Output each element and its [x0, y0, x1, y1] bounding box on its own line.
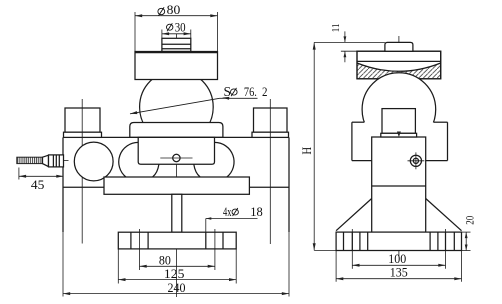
- svg-text:125: 125: [164, 267, 185, 281]
- svg-text:100: 100: [388, 252, 406, 266]
- svg-text:11: 11: [331, 23, 342, 32]
- svg-text:76.: 76.: [244, 84, 257, 99]
- svg-text:4x: 4x: [223, 205, 232, 219]
- svg-text:20: 20: [464, 216, 476, 225]
- svg-text:18: 18: [250, 205, 263, 219]
- svg-text:45: 45: [31, 177, 44, 192]
- svg-text:135: 135: [390, 266, 408, 280]
- svg-text:80: 80: [159, 253, 171, 267]
- svg-text:240: 240: [168, 281, 186, 295]
- svg-text:30: 30: [175, 20, 186, 34]
- svg-text:S: S: [224, 84, 232, 99]
- svg-text:80: 80: [167, 2, 181, 17]
- svg-text:2: 2: [262, 84, 268, 99]
- svg-text:H: H: [299, 147, 314, 155]
